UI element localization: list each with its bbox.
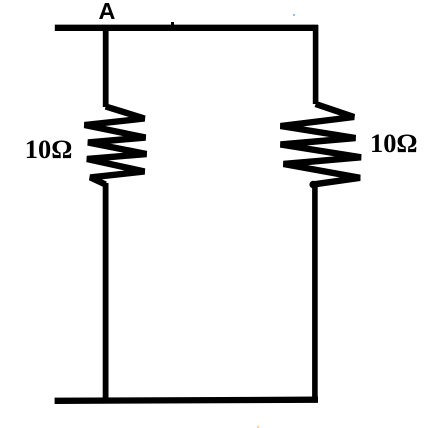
resistor R1 (left, 10 ohm) zigzag [85, 107, 147, 185]
wire bottom horizontal [55, 400, 318, 401]
wire left branch bottom [103, 183, 109, 402]
wire node A vertical (left branch top) [103, 25, 109, 107]
wire right branch top vertical [313, 25, 319, 104]
wire top horizontal [55, 25, 318, 31]
artifact blue dot [293, 14, 295, 16]
value label 10 ohm left [25, 136, 73, 162]
junction artifact tick on top wire [171, 22, 174, 25]
value label 10 ohm right [370, 130, 418, 156]
artifact orange dot [257, 426, 259, 428]
resistor R2 (right, 10 ohm) zigzag [281, 104, 362, 184]
junction blob at right resistor bottom bend [309, 181, 317, 189]
node A label [99, 0, 116, 23]
wire right branch bottom [312, 184, 318, 401]
